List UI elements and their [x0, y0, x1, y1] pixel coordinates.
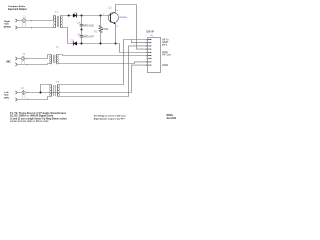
wire J3 bottom to T3 [17, 97, 51, 100]
svg-text:R1: R1 [94, 30, 98, 34]
wire collector [116, 5, 137, 12]
jack J1 bottom pin [15, 26, 17, 29]
svg-text:Input and Output: Input and Output [8, 8, 27, 11]
node R bottom [100, 43, 102, 45]
svg-text:W5JH: W5JH [166, 115, 173, 117]
wire T2 bottom to pin8 [57, 62, 148, 64]
wire to pin5 [120, 44, 148, 53]
jack J3 tip contact [22, 91, 25, 94]
wire bottom rail [68, 43, 120, 45]
wire T3 bottom to pin3 [58, 46, 148, 97]
svg-text:GND: GND [162, 63, 168, 67]
svg-text:2N3904: 2N3904 [119, 17, 127, 19]
resistor R1 [100, 16, 102, 26]
svg-text:J3: J3 [21, 86, 24, 90]
jack J2 switch contacts [22, 60, 25, 64]
jack J3 switch contacts [22, 94, 25, 99]
transformer T1 [54, 16, 63, 28]
svg-text:D2: D2 [71, 39, 75, 43]
wire to pin2 [132, 40, 148, 43]
svg-text:470 R: 470 R [102, 28, 109, 31]
pin numbers [146, 39, 148, 67]
jack J2 tip contact [21, 57, 24, 60]
svg-text:Jun 2011: Jun 2011 [166, 118, 177, 120]
svg-text:Left: Left [4, 91, 8, 94]
svg-text:(TIP): (TIP) [4, 97, 9, 99]
jack J1 top pin [15, 19, 17, 22]
wire to pin4 [137, 5, 148, 50]
node caps bottom [81, 43, 83, 45]
svg-text:P1: P1 [150, 33, 154, 37]
wire J1 bottom [17, 27, 55, 29]
svg-text:T3: T3 [56, 80, 60, 84]
svg-text:Side: Side [4, 24, 9, 26]
svg-text:Side: Side [4, 95, 9, 97]
svg-text:C6: C6 [77, 32, 81, 36]
connector pins [148, 39, 152, 66]
svg-text:T1: T1 [55, 10, 59, 14]
svg-text:Q1: Q1 [108, 5, 112, 9]
emitter arrow [113, 22, 115, 24]
svg-text:(RING): (RING) [4, 26, 11, 28]
svg-text:J2: J2 [22, 52, 25, 56]
svg-text:PTT: PTT [162, 43, 167, 47]
transistor Q1 [108, 13, 118, 23]
node R top [100, 15, 102, 17]
svg-text:Computer Audio: Computer Audio [8, 5, 26, 8]
jack J1 tip contact [22, 19, 26, 23]
svg-text:DB-9F: DB-9F [146, 29, 154, 33]
svg-text:NPO 0.47: NPO 0.47 [84, 36, 95, 38]
svg-text:Right Speaker output to key PT: Right Speaker output to key PTT [94, 117, 126, 120]
wire J2 bottom to T2 [17, 64, 51, 65]
wire emitter [115, 24, 117, 43]
svg-text:J1: J1 [23, 15, 26, 19]
node emitter-rail [115, 43, 117, 45]
wire J2 top to T2 [17, 55, 51, 59]
diode D2 [73, 42, 77, 46]
transformer T3 [50, 85, 60, 97]
jack J3 pins [15, 91, 17, 94]
wire J1 top [17, 16, 55, 21]
svg-text:socket and can share in Mono m: socket and can share in Mono mode [10, 120, 49, 123]
svg-text:Set FLDigi to send a 1 kHz ton: Set FLDigi to send a 1 kHz tone [94, 115, 127, 118]
diode D1 [73, 14, 77, 18]
wire T3 top to pin1 [58, 40, 148, 85]
wire branch to T3 top [41, 85, 52, 93]
svg-text:T2: T2 [56, 45, 60, 49]
svg-text:Right: Right [4, 20, 10, 23]
jack J1 switch contacts [23, 22, 26, 27]
wire top rail [61, 15, 111, 17]
svg-text:MIC: MIC [7, 62, 12, 64]
node caps mid [81, 29, 83, 31]
connector P1 DB-9F box [148, 38, 161, 73]
jack J2 pins [15, 57, 17, 60]
transformer T2 [50, 55, 59, 65]
svg-text:D1, D2: 1N914 or 1N4148 Signal: D1, D2: 1N914 or 1N4148 Signal Diode [10, 115, 54, 118]
svg-text:NPO 0.22: NPO 0.22 [84, 25, 95, 27]
svg-text:AF Out: AF Out [162, 53, 171, 57]
node T1 top [68, 15, 70, 17]
wire T2 top to pin6 [57, 55, 148, 56]
node rectifier top junction [81, 15, 83, 17]
wire J3 top to pin9 [17, 65, 147, 92]
wire T1 bottom to rail [61, 28, 68, 44]
node J3 branch [40, 92, 42, 94]
